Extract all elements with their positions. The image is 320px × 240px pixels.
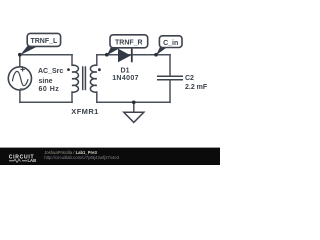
svg-text:C_in: C_in — [163, 40, 178, 47]
svg-text:TRNF_R: TRNF_R — [115, 40, 143, 47]
svg-text:XFMR1: XFMR1 — [71, 107, 98, 116]
svg-text:C2: C2 — [185, 75, 194, 82]
svg-text:60 Hz: 60 Hz — [39, 86, 60, 93]
svg-text:LAB: LAB — [28, 158, 37, 163]
svg-text:1N4007: 1N4007 — [112, 75, 139, 82]
svg-text:D1: D1 — [121, 67, 130, 74]
svg-text:sine: sine — [39, 78, 53, 85]
svg-text:2.2 mF: 2.2 mF — [185, 84, 208, 91]
svg-text:TRNF_L: TRNF_L — [30, 38, 58, 45]
svg-text:http://circuitlab.com/c/7p6tj4: http://circuitlab.com/c/7p6tj42wfj27v4e3 — [44, 155, 120, 160]
svg-text:AC_Src: AC_Src — [38, 68, 63, 75]
